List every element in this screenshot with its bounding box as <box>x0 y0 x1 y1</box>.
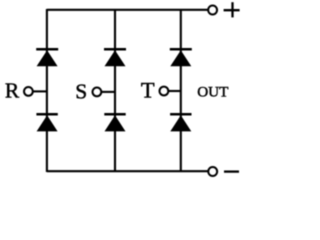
terminal circle: positive output <box>208 6 217 15</box>
terminal circle: negative output <box>208 167 217 176</box>
minus sign (negative output polarity) <box>224 170 239 172</box>
plus sign (positive output polarity) <box>224 2 240 17</box>
svg-text:OUT: OUT <box>197 83 229 100</box>
svg-text:T: T <box>141 77 155 102</box>
terminal circle: phase S input <box>93 88 102 97</box>
wire: bottom negative rail <box>47 170 208 172</box>
diode D3 (S leg, upper) <box>104 49 126 66</box>
diode D1 (R leg, upper) <box>36 49 58 66</box>
terminal circle: phase R input <box>24 87 33 96</box>
diode D2 (T leg, lower) <box>170 114 191 131</box>
wire: R terminal to R leg <box>33 90 47 92</box>
diode D5 (T leg, upper) <box>170 49 192 66</box>
diode D6 (S leg, lower) <box>104 114 125 131</box>
wire: top positive rail <box>47 9 208 11</box>
terminal circle: phase T input <box>160 87 169 96</box>
wire: S terminal to S leg <box>101 91 115 93</box>
wire: R-phase leg vertical <box>46 9 48 172</box>
svg-text:R: R <box>5 78 20 102</box>
diode D4 (R leg, lower) <box>36 114 57 131</box>
svg-text:S: S <box>75 80 87 104</box>
wire: T terminal to T leg <box>168 90 181 92</box>
wire: T-phase leg vertical <box>180 10 182 171</box>
wire: S-phase leg vertical <box>114 10 116 171</box>
